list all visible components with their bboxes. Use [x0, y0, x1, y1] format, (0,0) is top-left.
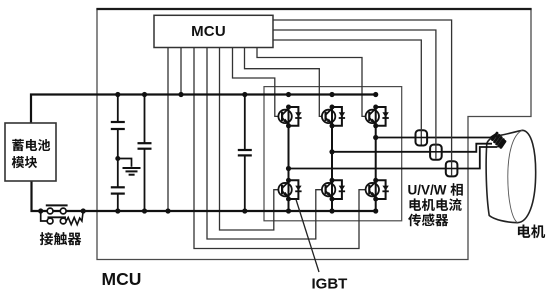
phase W line (from leg 1) [289, 147, 498, 169]
svg-text:MCU: MCU [102, 269, 142, 289]
capacitor C3 [144, 95, 146, 144]
wire gate upper IGBT Q1 [233, 48, 279, 117]
current sensor S1 [416, 130, 428, 145]
battery positive lead + DC+ rail [31, 95, 377, 124]
upper IGBT Q5 with diode D5 [376, 107, 386, 126]
contactor label 接触器 [40, 232, 53, 245]
node: phase U tap [373, 135, 378, 140]
inverter leg 3 rail dots [373, 92, 378, 97]
contactor aux contact circles [47, 218, 53, 224]
contactor main contact bar [46, 204, 68, 206]
contactor main contact circles [47, 208, 53, 214]
wire gate upper IGBT Q3 [245, 48, 322, 117]
wire sensor S1 signal [273, 40, 421, 145]
svg-text:U/V/W: U/V/W [408, 183, 447, 198]
wire gate lower IGBT Q4 (middle loop) [207, 48, 322, 240]
node: phase W tap [286, 166, 291, 171]
phase U line (from leg 3) [376, 134, 496, 137]
wire sensor S2 signal [273, 30, 436, 159]
battery module box [5, 123, 56, 181]
motor front rim arc [508, 130, 523, 222]
leg 1 midpoint wire [288, 126, 290, 181]
phase V line (from leg 2) [332, 144, 492, 152]
node: resistor rejoin [81, 208, 86, 213]
node: C1/C2 midpoint [115, 156, 120, 161]
precharge resistor R1 zigzag [66, 211, 83, 225]
lower IGBT Q2 with diode D2 [289, 180, 299, 199]
motor M1 body [486, 130, 536, 222]
current sensor S2 [430, 145, 442, 160]
inverter leg 1 rail dots [286, 92, 291, 97]
IGBT bridge box [264, 87, 402, 221]
current sensor S3 [446, 161, 458, 176]
IGBT pointer line [296, 200, 319, 273]
lower IGBT Q6 with diode D6 [376, 180, 386, 199]
node: MCU DC- sense [165, 208, 170, 213]
wire gate upper IGBT Q5 [257, 48, 366, 117]
inverter leg 2 rail dots [329, 92, 334, 97]
wire sensor S3 signal [273, 20, 452, 175]
wire gate lower IGBT Q2 (inner loop) [220, 48, 279, 231]
battery negative lead + DC- rail [32, 181, 377, 211]
MCU box [154, 15, 273, 47]
leg 2 midpoint wire [331, 126, 333, 181]
wire MCU pin1 to DC- rail [167, 48, 169, 212]
capacitor C1 (upper of grounded pair) [117, 95, 119, 123]
lower IGBT Q4 with diode D4 [332, 180, 342, 199]
chassis ground [118, 159, 132, 167]
controller enclosure frame [97, 9, 531, 260]
label motor 电机 [518, 225, 531, 238]
leg 3 midpoint wire [375, 126, 377, 181]
node: phase V tap [329, 149, 334, 154]
contactor aux contact bar [48, 216, 67, 218]
capacitor C2 (lower of grounded pair) [117, 159, 119, 188]
DC bus capacitor C4 [244, 95, 246, 151]
svg-text:MCU: MCU [191, 23, 226, 40]
contactor K1: junction node [38, 208, 43, 213]
contactor aux branch wire [41, 211, 47, 221]
wire gate lower IGBT Q6 (outer loop) [194, 48, 366, 249]
wire MCU pin2 to DC+ rail [180, 48, 182, 95]
upper IGBT Q1 with diode D1 [289, 107, 299, 126]
battery label 蓄电池模块 [12, 139, 24, 151]
svg-text:IGBT: IGBT [312, 276, 348, 293]
upper IGBT Q3 with diode D3 [332, 107, 342, 126]
phase stubs through sensors [416, 137, 427, 139]
motor terminal block [493, 133, 505, 147]
node: MCU DC+ sense [178, 92, 183, 97]
frame top edge (thick) [96, 8, 531, 10]
